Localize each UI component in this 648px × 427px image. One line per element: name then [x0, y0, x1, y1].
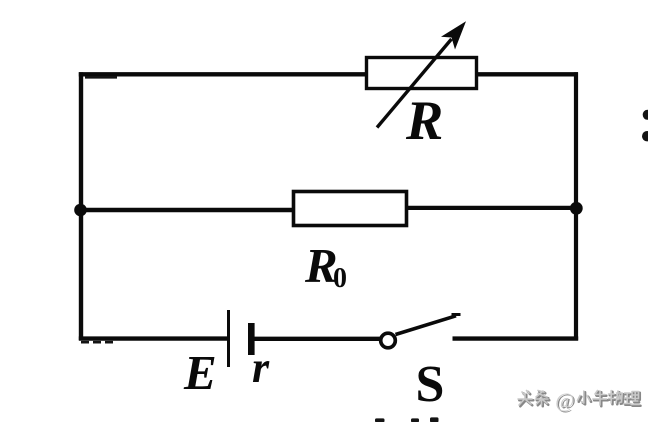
node B junction dot (right) [570, 202, 583, 215]
switch S lever arm [396, 316, 457, 335]
clipped text fragment at bottom edge 3 [430, 417, 439, 422]
clipped text fragment at bottom edge 1 [375, 418, 385, 422]
resistor R arrowhead [441, 21, 466, 49]
svg-text:S: S [416, 356, 445, 413]
wire bottom left segment (corner to battery) [79, 336, 228, 340]
wire left vertical (top-left corner to bottom-left corner) [79, 72, 83, 340]
battery E,r positive plate (long thin) [227, 310, 230, 367]
resistor R0 body [294, 192, 407, 226]
svg-text:R: R [405, 90, 443, 152]
node A junction dot (left) [74, 204, 87, 217]
clipped glyph fragment at right edge (lower) [642, 131, 648, 141]
resistor R (variable rheostat) body [367, 58, 477, 89]
wire bottom right segment (switch to right corner) [453, 336, 579, 340]
wire right vertical [574, 72, 578, 340]
svg-text:E: E [183, 345, 217, 400]
svg-text:0: 0 [333, 263, 347, 294]
scan speckle under bottom-left corner [81, 341, 115, 344]
resistor R arrow shaft [377, 39, 452, 128]
wire bottom middle segment (battery to switch) [255, 337, 382, 341]
clipped glyph fragment at right edge (upper) [643, 110, 648, 120]
wire middle branch right (R0 to node B) [405, 206, 576, 210]
watermark 头条@小牛物理 (drawn strokes, embossed gray) [518, 388, 641, 413]
clipped text fragment at bottom edge 2 [411, 418, 419, 422]
scan speckle under top-left corner [85, 76, 117, 79]
battery E,r negative plate (short thick) [248, 323, 255, 355]
switch S pivot circle [381, 333, 396, 348]
svg-text:@: @ [555, 388, 574, 412]
wire top horizontal [79, 72, 578, 76]
wire middle branch left (node A to R0) [80, 208, 295, 212]
switch S lever tip tick [452, 313, 461, 316]
svg-text:r: r [252, 343, 270, 392]
